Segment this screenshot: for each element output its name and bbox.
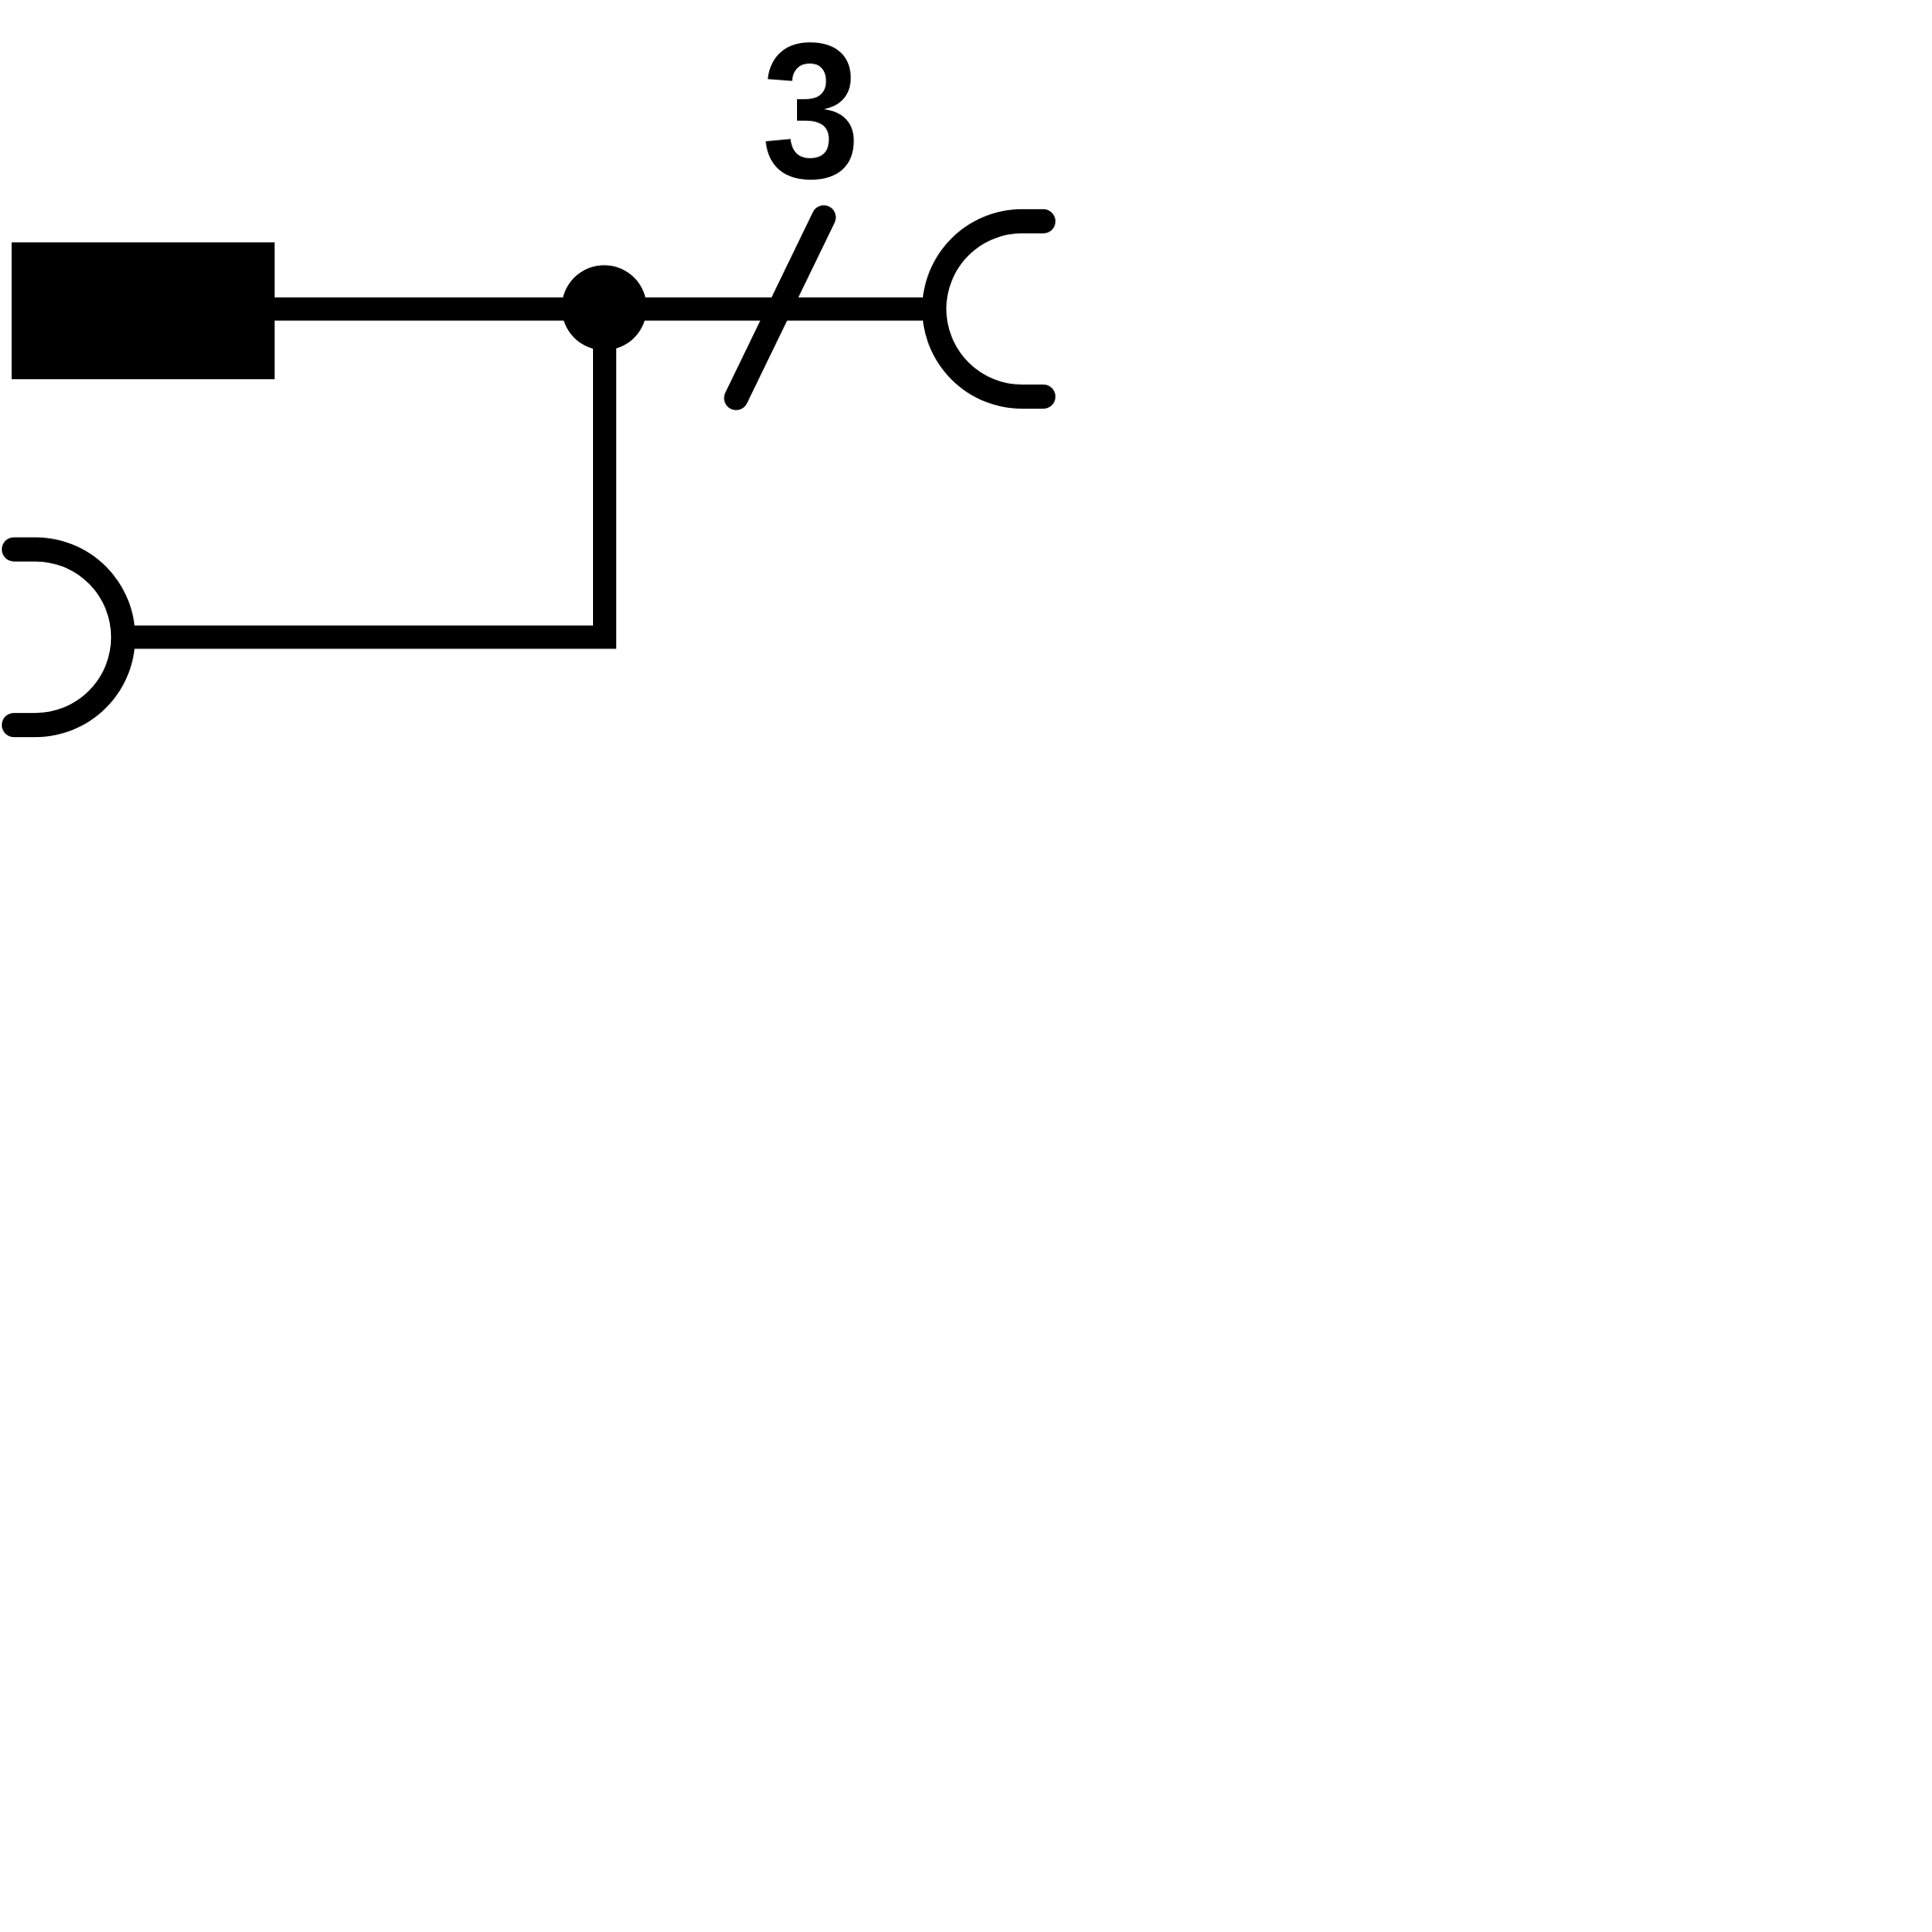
- junction node (solder dot): [562, 266, 647, 351]
- svg-text:3: 3: [762, 2, 860, 218]
- terminal block X1 (filled rectangle): [12, 242, 275, 379]
- socket contact (bottom left, female, opens left): [14, 549, 123, 724]
- socket contact (right, female, opens right): [935, 221, 1044, 396]
- bus slash (conductor-count marker): [736, 217, 824, 398]
- wire: junction down and left to second contact: [125, 298, 605, 637]
- wire: terminal block to junction to pin 3 contact: [268, 298, 946, 321]
